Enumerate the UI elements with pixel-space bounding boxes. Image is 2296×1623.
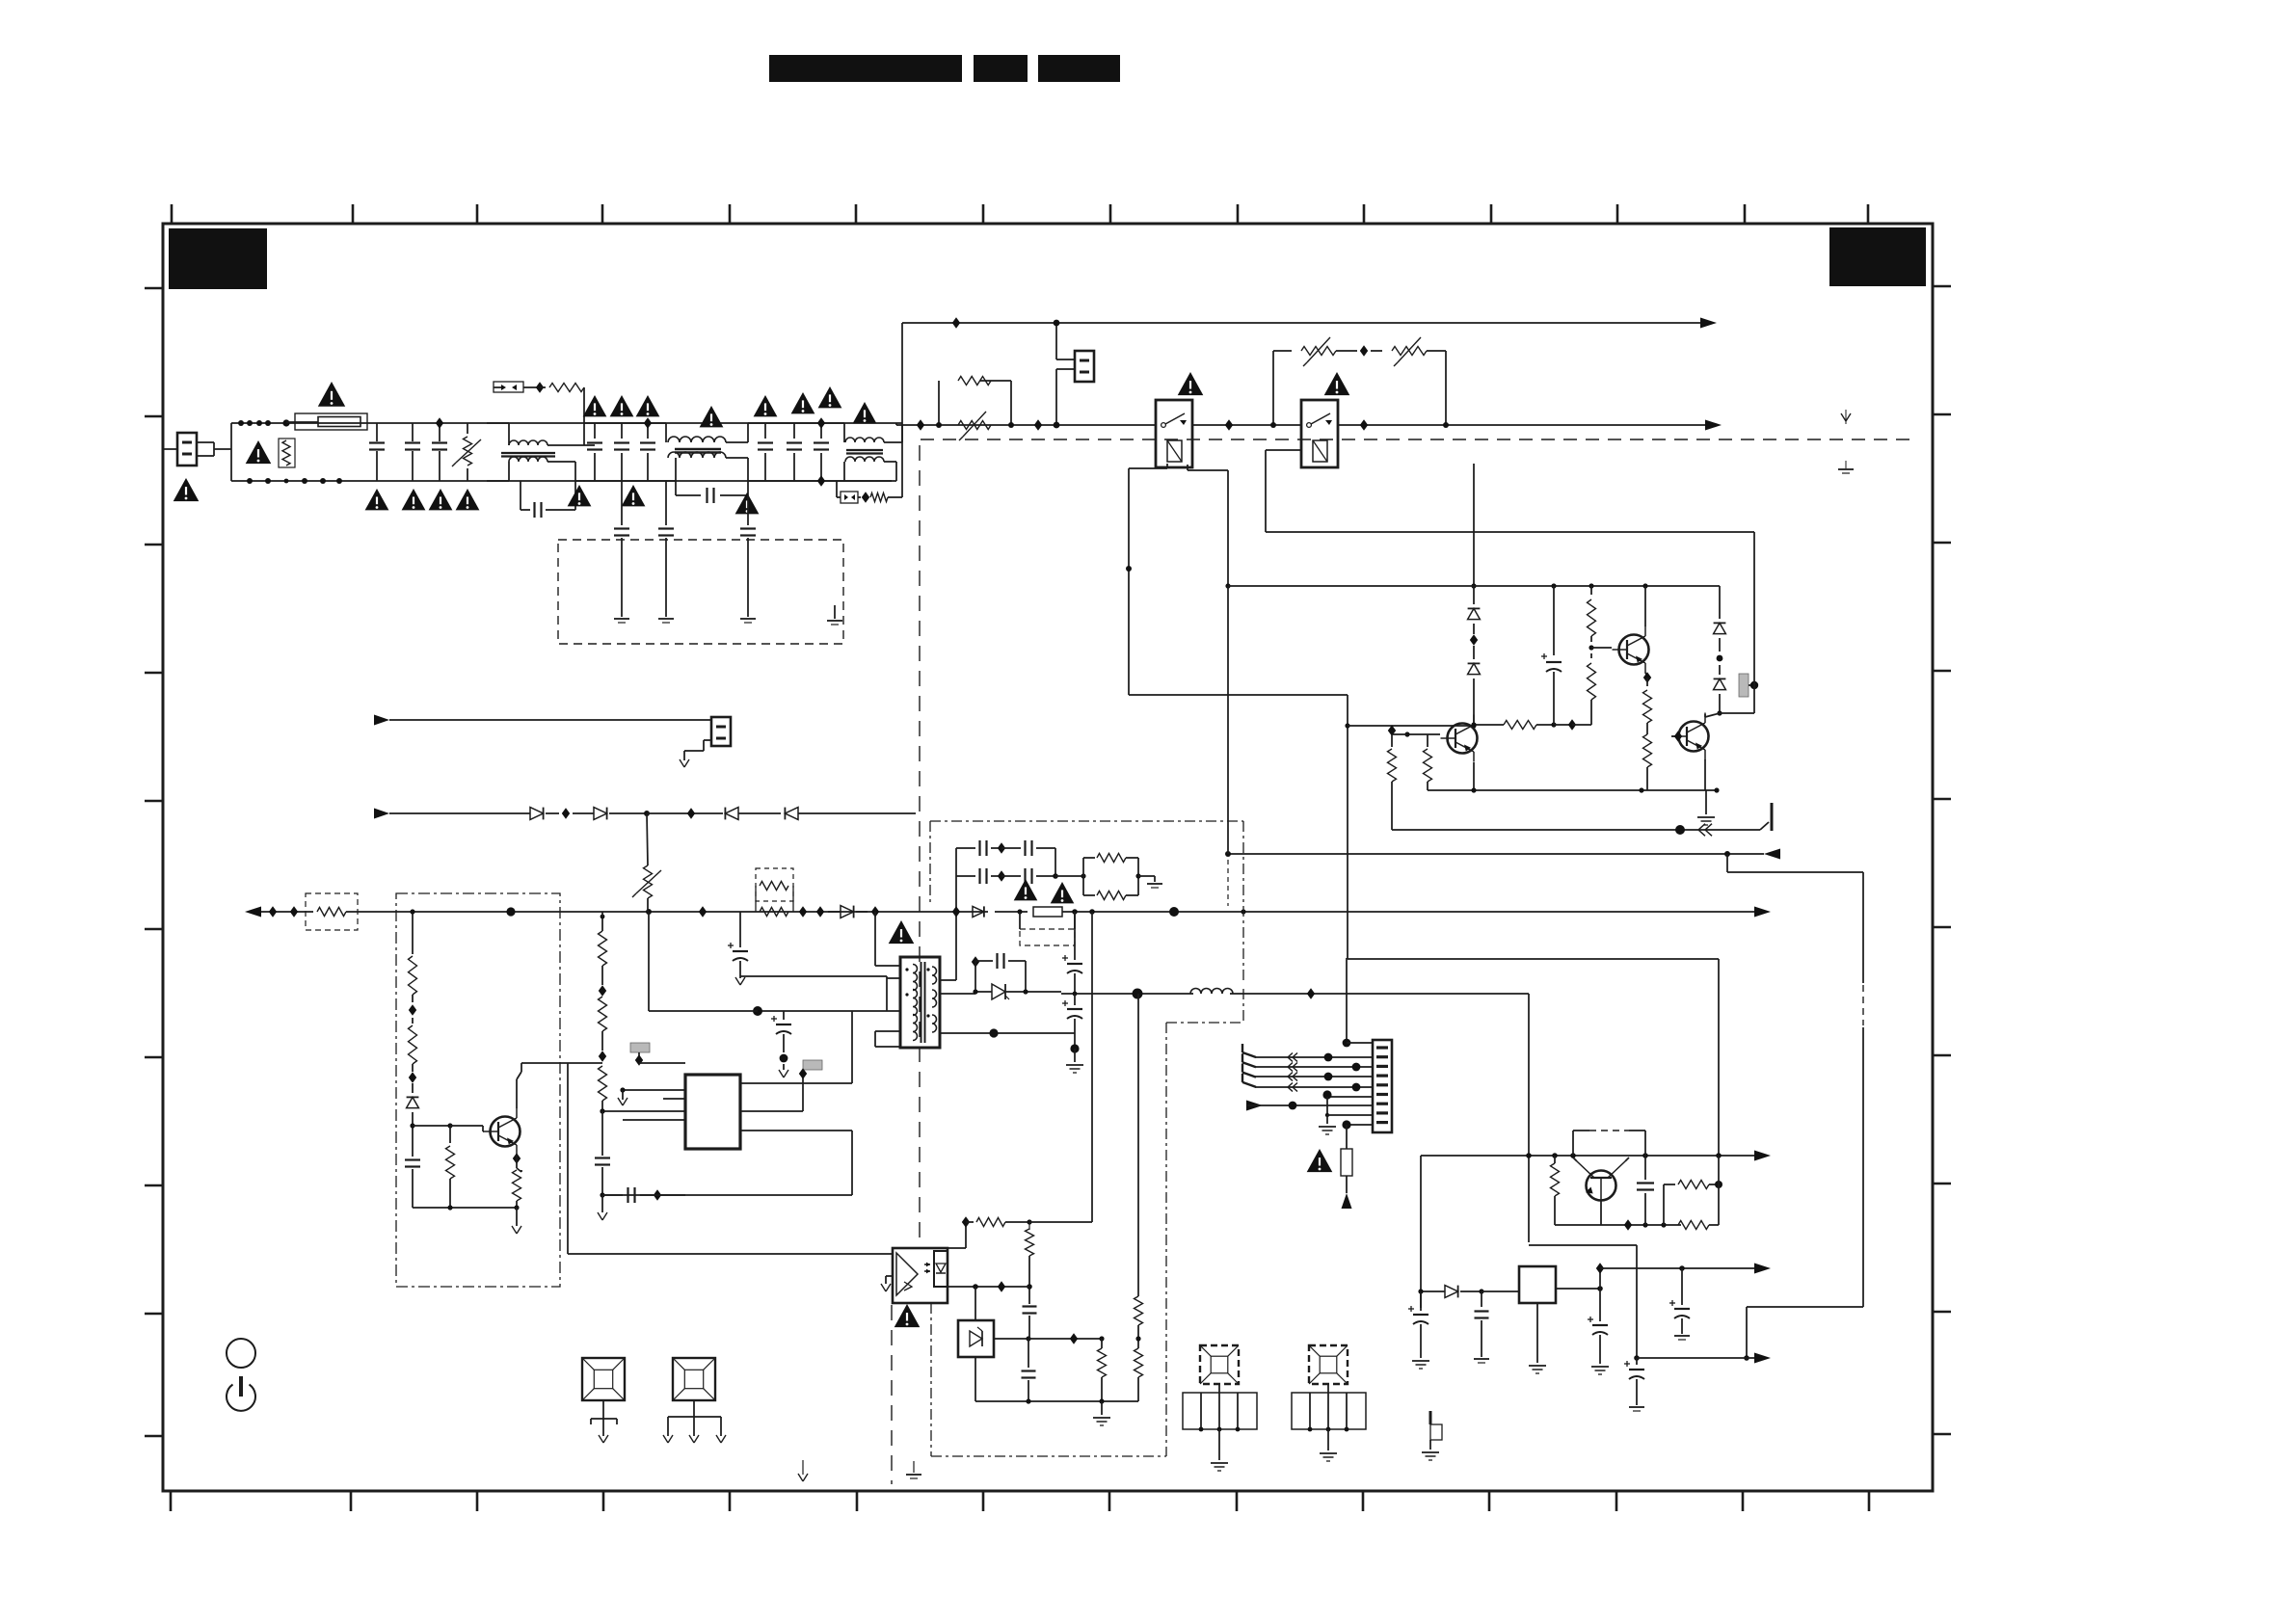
Y-cap C9 bbox=[787, 423, 802, 481]
transistor Q4 bbox=[1577, 1161, 1625, 1201]
wire K1 coil left bbox=[1126, 464, 1167, 695]
resistor R9 bbox=[1588, 653, 1596, 725]
wire output rail y1031 bbox=[1061, 989, 1193, 999]
wire x1820 down bbox=[1720, 532, 1754, 713]
gnd sym near x954 bbox=[906, 1461, 921, 1478]
harness wire 7 bbox=[1325, 1097, 1373, 1117]
arrow feed y844 bbox=[374, 809, 530, 819]
chassis gnd 1 bbox=[614, 619, 629, 623]
wire x1783 to R pair bbox=[1718, 1156, 1720, 1225]
warning triangle xfmr bbox=[889, 920, 915, 944]
warning triangles lower bbox=[568, 485, 760, 514]
degauss connector J2 bbox=[1075, 351, 1094, 382]
redacted title bar 1 bbox=[769, 55, 962, 82]
wire bus y608 bbox=[1228, 583, 1717, 588]
bypass pair over choke1 bbox=[494, 382, 584, 445]
parallel R22 R23 bbox=[1081, 854, 1155, 900]
wire K2 coil left bbox=[1266, 450, 1754, 532]
harness fold lines bbox=[1242, 1044, 1256, 1087]
cap C19 bbox=[1062, 912, 1082, 994]
node dia R17 bbox=[409, 1004, 416, 1015]
gnd C20 bbox=[1066, 1049, 1083, 1073]
resistor R10 bbox=[1643, 678, 1652, 731]
pad X3 block bbox=[1183, 1384, 1257, 1460]
diode D13 bbox=[594, 808, 723, 820]
wire zener net bbox=[994, 1333, 1105, 1344]
wire sec diode node bbox=[973, 989, 1061, 994]
warning triangle (NTC) bbox=[246, 440, 272, 464]
node dot D3D4 bbox=[1717, 655, 1723, 662]
resistor R18 bbox=[409, 1018, 417, 1072]
wire R7 to base chain bbox=[1554, 719, 1591, 730]
wire T1 right pins bbox=[940, 912, 1075, 1038]
wire rail y1199 bbox=[1421, 1153, 1760, 1158]
test pin J4 bbox=[1422, 1411, 1442, 1460]
optocoupler U2 bbox=[893, 1248, 948, 1303]
cap C15 bbox=[602, 1187, 657, 1203]
harness wire 5 bbox=[1322, 1090, 1373, 1099]
arrow bus y335 bbox=[1700, 318, 1717, 329]
wire to xfmr bbox=[875, 912, 900, 966]
harness wire 2 bbox=[1255, 1063, 1373, 1072]
cap C26 bbox=[1669, 1268, 1690, 1340]
diode D10 bbox=[1445, 1286, 1482, 1298]
warning triangle sec bbox=[1014, 879, 1038, 900]
dash-dot box bottom bbox=[931, 1303, 1166, 1456]
cap C16 bbox=[728, 912, 748, 985]
Y-cap C5 bbox=[614, 423, 629, 481]
wire drop from diodes bbox=[647, 813, 648, 865]
gnd standby bbox=[512, 1208, 521, 1234]
arrow up F3 bbox=[1342, 1193, 1352, 1209]
pad TP1 bbox=[630, 1043, 650, 1066]
wire x1181 down bbox=[1137, 994, 1139, 1290]
isolation dashed line y456 bbox=[921, 439, 1913, 440]
snubber R15 R16 bbox=[756, 868, 793, 917]
indicator circle bbox=[227, 1339, 255, 1368]
wire 1792 down right bbox=[1727, 854, 1863, 1307]
resistor R20 bbox=[413, 1170, 521, 1208]
zener D9 bbox=[939, 962, 1026, 999]
resistor R31 bbox=[1026, 1222, 1034, 1290]
redacted block top-left bbox=[169, 228, 267, 289]
gnd opto bbox=[881, 1276, 893, 1291]
floating gnd right 1 bbox=[1841, 410, 1851, 424]
wire rail x1586 bbox=[1528, 994, 1530, 1242]
mount pad X4 bbox=[1309, 1345, 1348, 1384]
pad X4 block bbox=[1292, 1384, 1366, 1450]
wire Q4 emitter bbox=[1600, 1200, 1602, 1225]
wire K1-K2 bbox=[1192, 424, 1301, 426]
floating gnd mid bottom bbox=[798, 1460, 808, 1481]
wire AC bottom rail bbox=[247, 480, 896, 482]
warning triangle opto bbox=[894, 1304, 921, 1327]
wire reg in bbox=[1482, 1290, 1519, 1292]
wire top bus y608 right end bbox=[1717, 585, 1720, 587]
mount pad X1 bbox=[582, 1358, 625, 1400]
floating gnd right 2 bbox=[1838, 461, 1854, 473]
Y-cap C6 bbox=[640, 423, 655, 481]
wire y1049 bbox=[649, 1010, 758, 1012]
cap link left bbox=[521, 481, 575, 518]
zener shunt reg D11 bbox=[958, 1320, 994, 1357]
gnd C22 bbox=[1412, 1361, 1429, 1369]
choke L3 bbox=[844, 423, 896, 481]
fusible resistor R13 box bbox=[306, 893, 358, 930]
node dots bottom rail bbox=[247, 478, 342, 484]
Y-cap C4 bbox=[587, 423, 602, 481]
node R8R9 bbox=[1589, 645, 1593, 650]
wire left drop x589 bbox=[521, 1063, 602, 1254]
node dia bus bbox=[952, 317, 960, 328]
parallel R26 R27 bbox=[1664, 1181, 1722, 1230]
diode D1 bbox=[1468, 586, 1481, 634]
wire bus riser x936 bbox=[901, 323, 903, 497]
wire choke3 out bbox=[896, 425, 902, 481]
mount pad X2 bbox=[673, 1358, 715, 1400]
wire Q3 base bbox=[1671, 731, 1682, 741]
wire snubber drop bbox=[952, 876, 960, 918]
chassis gnd 2 bbox=[658, 619, 674, 623]
diode D4 bbox=[1714, 665, 1726, 716]
gnd C24 bbox=[1591, 1367, 1609, 1374]
warning triangle K1 bbox=[1178, 372, 1204, 395]
X-cap C1 bbox=[369, 423, 385, 481]
wire bottom y1301 bbox=[568, 1253, 893, 1255]
wire IC pin4 bbox=[623, 1119, 685, 1121]
wire T1 primary pins bbox=[875, 978, 900, 1047]
gnd C25 bbox=[1629, 1407, 1644, 1411]
node dia L line bbox=[917, 419, 1042, 430]
wire J1 to rails bbox=[197, 423, 247, 481]
harness wire 4 bbox=[1255, 1083, 1373, 1092]
wire main rail bbox=[358, 906, 979, 917]
wire y753 link bbox=[1348, 725, 1474, 727]
gnd X3 bbox=[1211, 1463, 1228, 1471]
cap C20 bbox=[1062, 994, 1082, 1053]
resistor R5 bbox=[1388, 734, 1397, 790]
wire reg rail bbox=[1418, 1289, 1445, 1293]
gnd X2 c bbox=[716, 1435, 726, 1443]
Y-cap C8 bbox=[758, 423, 773, 481]
transformer T1 bbox=[900, 957, 940, 1048]
X-cap C2 bbox=[405, 423, 420, 481]
gnd X2 b bbox=[689, 1435, 699, 1443]
wire T1 left feed bbox=[753, 1006, 887, 1016]
regulator U3 bbox=[1519, 1266, 1556, 1303]
wire Q5 base bbox=[413, 1123, 484, 1131]
fuse F1 bbox=[286, 413, 367, 430]
dash-dot corner x1290 bbox=[1166, 821, 1243, 1456]
pad TP2 bbox=[799, 1060, 822, 1079]
transistor Q1 bbox=[1441, 715, 1478, 762]
dashed gap x1933 bbox=[1859, 983, 1867, 1027]
arrow left y886 bbox=[1764, 849, 1780, 860]
arrow right y1316 bbox=[1754, 1264, 1771, 1274]
node dia after K2 bbox=[1360, 419, 1368, 430]
wire IC pin3 bbox=[600, 1108, 685, 1113]
wire base Q2 bbox=[1591, 647, 1612, 649]
cap C7 bottom link bbox=[676, 481, 748, 503]
wire reg out bbox=[1556, 1286, 1603, 1291]
standby dash-dot box bbox=[396, 893, 560, 1287]
inrush NTC R2 bbox=[279, 439, 295, 467]
wire AC top rail bbox=[241, 422, 902, 424]
warning triangle (fuse) bbox=[318, 382, 345, 407]
isolation dashed vertical x954 bbox=[892, 445, 920, 1484]
arrow right y1409 bbox=[1754, 1353, 1771, 1364]
wire connector drop bbox=[1054, 320, 1075, 425]
wire Q1 emitter bbox=[1473, 762, 1475, 790]
gnd regulator bbox=[1529, 1303, 1546, 1373]
cap C24 bbox=[1588, 1289, 1608, 1364]
cap C17 bbox=[771, 1011, 791, 1078]
left edge tick marks bbox=[145, 288, 163, 1436]
wire x1398 down bbox=[1345, 695, 1349, 959]
wire mid rails bbox=[748, 423, 892, 481]
cap C27 bbox=[1023, 1287, 1037, 1339]
wire x1274 lower bbox=[1227, 586, 1229, 906]
wire zener bottom bbox=[975, 1357, 1138, 1404]
cap C11 bbox=[1541, 586, 1562, 725]
opto feedback R30 bbox=[962, 912, 1092, 1228]
wire Q5 node bbox=[410, 1123, 414, 1153]
gnd C23 bbox=[1474, 1359, 1489, 1363]
wire Q3 collector bbox=[1705, 713, 1720, 717]
cap C22 bbox=[1408, 1291, 1428, 1358]
X-cap C3 bbox=[432, 423, 447, 481]
connector J5 bbox=[711, 717, 731, 746]
wire reg out up bbox=[1596, 1263, 1604, 1289]
wire top rail 3 bbox=[765, 422, 844, 424]
inductor L4 bbox=[1190, 989, 1233, 995]
harness wire 6 bbox=[1246, 1101, 1373, 1111]
diode D15 bbox=[785, 808, 916, 820]
wire rail cont bbox=[995, 909, 1028, 914]
diode D3 bbox=[1714, 586, 1726, 652]
wire IC pin row bbox=[618, 1087, 685, 1105]
wire main rail left bbox=[261, 906, 306, 917]
wire rail right bbox=[1228, 911, 1760, 913]
cap C23 bbox=[1475, 1291, 1489, 1357]
warning triangle (input) bbox=[174, 478, 200, 501]
resistor R19 bbox=[446, 1126, 455, 1208]
harness wire 1 bbox=[1255, 1053, 1373, 1062]
wire loop x1933 to arrow bbox=[1744, 1307, 1863, 1361]
choke L2 bbox=[666, 423, 748, 481]
mount pad X3 bbox=[1200, 1345, 1239, 1384]
bottom edge tick marks bbox=[171, 1491, 1869, 1511]
resistor R24 bbox=[1135, 1290, 1143, 1339]
warning triangle choke2 bbox=[700, 406, 724, 427]
warning triangles above filter bbox=[583, 395, 660, 416]
gnd X1 bbox=[599, 1435, 608, 1443]
wire K2 out bbox=[1338, 424, 1711, 426]
wire K1 coil right bbox=[1188, 465, 1231, 589]
wire y721 link bbox=[1129, 694, 1348, 696]
page border frame bbox=[163, 224, 1933, 1491]
wire IC bottom row bbox=[600, 1189, 685, 1200]
redacted title bar 2 bbox=[974, 55, 1028, 82]
wire J3 pin1 bbox=[1343, 1039, 1373, 1048]
wire K2 coil right bbox=[1471, 464, 1476, 589]
diode D7 bbox=[407, 1083, 419, 1126]
harness wire 3 bbox=[1255, 1073, 1373, 1081]
node dot 1290 bbox=[1241, 909, 1245, 914]
degauss PTC R4 bbox=[936, 377, 1014, 441]
node dia R18 bbox=[409, 1072, 416, 1082]
diode D2 bbox=[1468, 646, 1481, 729]
wire R21 top bbox=[601, 912, 603, 917]
gnd C14 bbox=[598, 1195, 607, 1220]
Q4 leads bbox=[1573, 1157, 1629, 1161]
diode D14 bbox=[687, 808, 781, 820]
dash-dot top y852 bbox=[930, 821, 1243, 903]
diode D6 line bbox=[973, 906, 988, 917]
arrow left main rail bbox=[245, 907, 261, 918]
mains connector J1 bbox=[163, 433, 197, 466]
pad X1 legs bbox=[591, 1400, 617, 1436]
connector J3 bbox=[1373, 1040, 1392, 1132]
wire bottom rail y820 bbox=[1428, 787, 1720, 792]
bypass pair choke3 bbox=[837, 481, 902, 503]
wire rail after L4 bbox=[1230, 988, 1529, 998]
main AC line to relay1 bbox=[896, 423, 1156, 425]
gnd Q3 bbox=[1697, 790, 1715, 825]
redacted block top-right bbox=[1829, 227, 1926, 286]
wire out arrow y1316 bbox=[1600, 1265, 1760, 1271]
gnd J5 bbox=[680, 740, 711, 767]
resistor chain R21 bbox=[599, 915, 607, 1114]
wire y995 link bbox=[1348, 959, 1719, 1156]
snubber cap C18 bbox=[972, 953, 1026, 992]
warning triangle F3 bbox=[1307, 1149, 1333, 1172]
arrow right y1199 bbox=[1754, 1151, 1771, 1161]
film resistor R12 bbox=[1739, 674, 1758, 697]
relay K2 bbox=[1301, 400, 1338, 467]
wire bottom y1271 bbox=[1555, 1219, 1681, 1230]
wire IC right pins bbox=[657, 1011, 852, 1195]
wire opto top bbox=[946, 1222, 966, 1248]
gnd X2 a bbox=[663, 1435, 673, 1443]
VDR R3 bbox=[452, 423, 481, 481]
diode D12 bbox=[530, 808, 594, 820]
wire Q5 collector bbox=[517, 1063, 521, 1108]
node dia K1K2 bbox=[1225, 419, 1233, 430]
standby power icon bbox=[227, 1376, 255, 1411]
transistor Q5 bbox=[484, 1108, 521, 1156]
wire pad to IC bbox=[639, 1062, 685, 1064]
node dia rail3 bbox=[817, 417, 825, 486]
relay K1 bbox=[1156, 400, 1192, 467]
warning triangle fuse2 bbox=[1051, 882, 1075, 903]
right edge tick marks bbox=[1933, 286, 1951, 1434]
diode D5 bbox=[828, 906, 868, 918]
arrow feed y747 bbox=[374, 715, 711, 731]
wire Q5 emitter bbox=[513, 1153, 521, 1172]
wire top rail 2 bbox=[584, 422, 666, 424]
cap C21 bbox=[1637, 1156, 1654, 1225]
wire choke1 to filter2 bbox=[575, 445, 676, 481]
gnd X4 bbox=[1320, 1453, 1337, 1461]
Q4 base-collector loop bbox=[1573, 1131, 1645, 1156]
wire y1409 bbox=[1637, 1357, 1760, 1359]
wire Q1 base bbox=[1388, 725, 1440, 736]
fuse F3 bbox=[1341, 1125, 1352, 1193]
snubber box dashed bbox=[1020, 912, 1075, 945]
node dia D5 bbox=[871, 906, 879, 917]
wire Q3 emitter bbox=[1705, 759, 1706, 790]
gnd zener net bbox=[1093, 1401, 1110, 1425]
transistor Q3 bbox=[1672, 713, 1709, 760]
redacted title bar 3 bbox=[1038, 55, 1120, 82]
top edge tick marks bbox=[172, 204, 1868, 224]
wire opto right leads bbox=[948, 1281, 1029, 1321]
wire Q2 collector bbox=[1644, 586, 1646, 626]
resistor R7 bbox=[1471, 721, 1556, 730]
resistor R11 bbox=[1643, 731, 1652, 790]
cap C13 bbox=[405, 1153, 420, 1208]
resistor R8 bbox=[1588, 586, 1596, 642]
fuse F2 bbox=[1033, 907, 1228, 917]
wire y1013 bbox=[740, 976, 887, 978]
chassis gnd 3 bbox=[740, 619, 756, 623]
wire top bus y335 bbox=[902, 322, 1706, 324]
cap C25 bbox=[1624, 1358, 1644, 1405]
dashed chassis box bbox=[558, 540, 843, 644]
node dot L line bbox=[1054, 422, 1060, 429]
gnd R23 bbox=[1147, 884, 1162, 888]
Y-cap C10 bbox=[814, 423, 829, 481]
warning triangles filter3 bbox=[754, 386, 877, 423]
wire chevron line y861 bbox=[1392, 790, 1772, 836]
Y-caps to chassis bbox=[614, 481, 756, 617]
gnd harness bbox=[1319, 1115, 1336, 1134]
node dia top bbox=[644, 417, 652, 428]
wire drive bbox=[648, 912, 650, 1011]
NTC R14 bbox=[632, 865, 661, 912]
wire sense line y886 bbox=[1225, 851, 1764, 857]
node dots top rail bbox=[238, 419, 290, 426]
node dia snubber bbox=[799, 906, 824, 917]
node dot reg in bbox=[1479, 1289, 1483, 1293]
line-filter choke L1 bbox=[487, 423, 584, 481]
resistor R29 bbox=[1135, 1336, 1143, 1401]
sec snubber caps bbox=[956, 840, 1083, 884]
surge resistors over K2 bbox=[1270, 337, 1449, 428]
cap C28 bbox=[1022, 1339, 1036, 1401]
arrow right main rail bbox=[1754, 907, 1771, 918]
pad X2 legs bbox=[668, 1400, 721, 1436]
node diamonds input caps bbox=[436, 417, 443, 428]
warning triangles under caps bbox=[365, 489, 480, 510]
warning triangle K2 bbox=[1324, 372, 1350, 395]
cap C14 bbox=[595, 1111, 610, 1195]
harness wire 8 bbox=[1342, 1120, 1373, 1129]
resistor R28 bbox=[1098, 1339, 1107, 1401]
wire x1585 bottom bbox=[1529, 1245, 1640, 1361]
node dia D1D2 bbox=[1470, 634, 1478, 645]
wire x1474 seg bbox=[1420, 1156, 1422, 1308]
resistor R6 bbox=[1424, 734, 1432, 790]
wire x1397 net bbox=[1346, 958, 1348, 1040]
resistor R25 bbox=[1551, 1156, 1560, 1225]
transistor Q2 bbox=[1613, 626, 1649, 674]
arrow line y441 bbox=[1705, 420, 1722, 431]
chassis gnd 4 bbox=[827, 605, 842, 625]
resistor R17 bbox=[409, 909, 417, 1002]
wire Q2 emitter bbox=[1643, 672, 1651, 682]
